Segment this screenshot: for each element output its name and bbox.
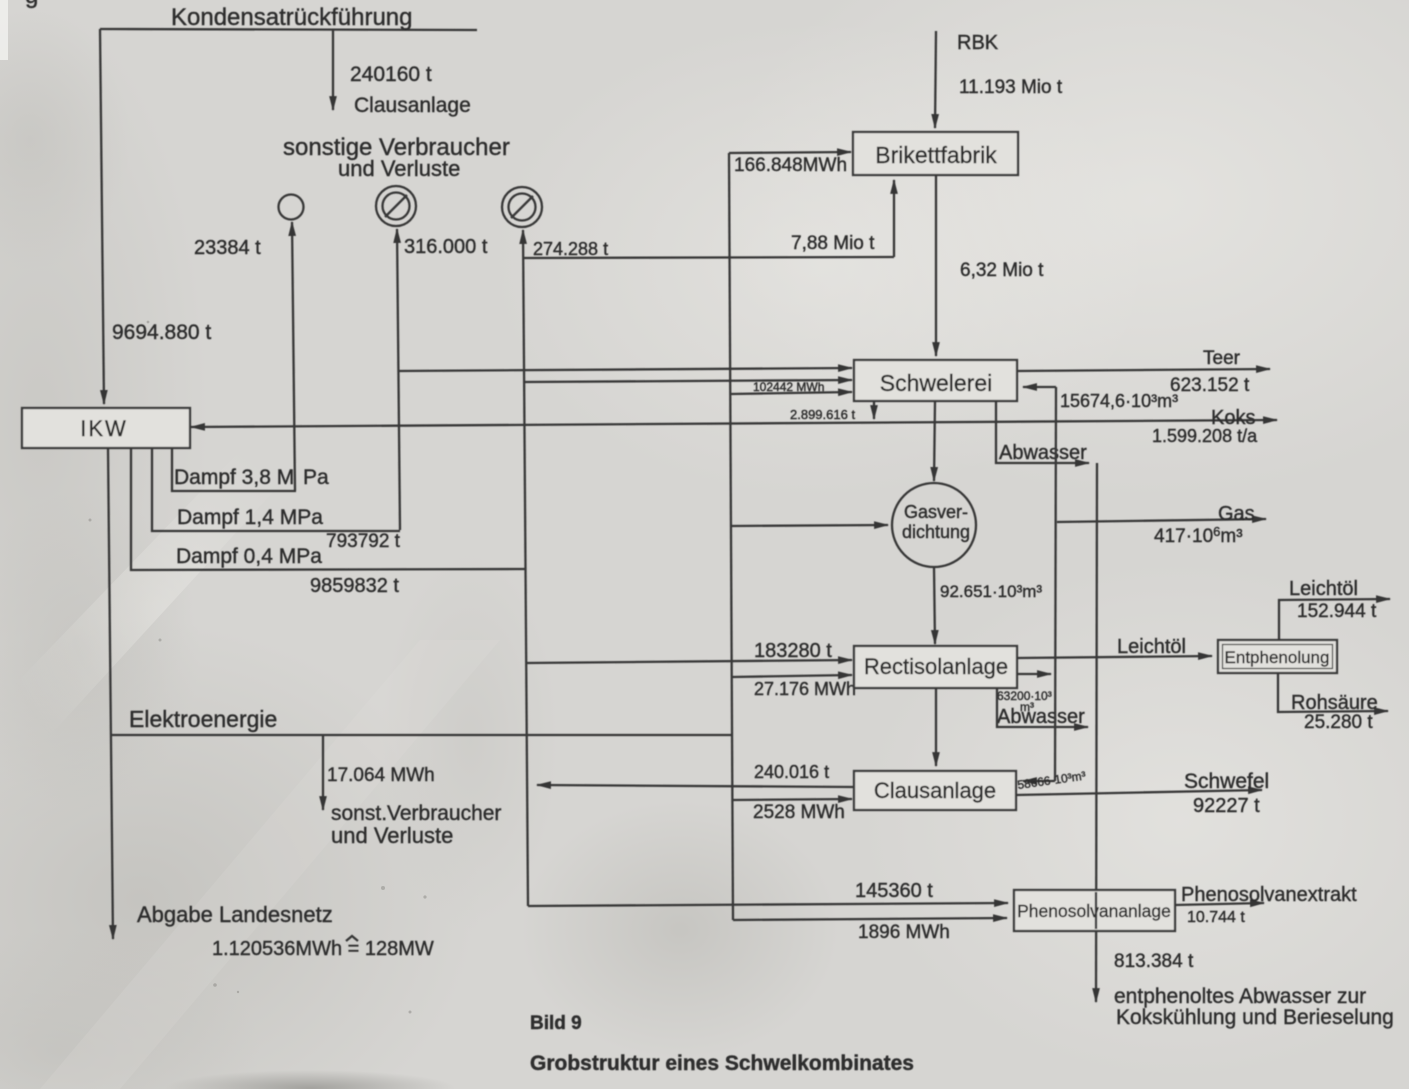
wire steam feed 2 into Schwelerei: [525, 380, 852, 382]
label sonst Verbraucher und Verluste: [331, 802, 501, 848]
svg-text:240.016 t: 240.016 t: [754, 762, 829, 782]
svg-text:27.176 MWh: 27.176 MWh: [754, 679, 856, 699]
svg-text:Dampf 3,8 M: Dampf 3,8 M: [174, 466, 294, 489]
wire Elektro distribution vertical: [729, 153, 733, 920]
svg-text:92.651·10³m³: 92.651·10³m³: [940, 582, 1042, 601]
wire Entphenolung Leichtoel out: [1279, 599, 1390, 640]
label 15674,6 10^3 m^3: [1060, 391, 1178, 411]
svg-text:623.152 t: 623.152 t: [1170, 375, 1250, 396]
wire branch to Clausanlage (condensate): [332, 29, 334, 110]
wire 240016 t return line: [537, 785, 854, 787]
wire Dampf 1,4 from IKW: [152, 448, 400, 531]
svg-text:Brikettfabrik: Brikettfabrik: [875, 142, 997, 168]
svg-text:Bild 9: Bild 9: [530, 1013, 582, 1034]
svg-text:Abwasser: Abwasser: [999, 442, 1087, 464]
wire Schwelerei Abwasser to collector: [996, 401, 1089, 463]
label Kondensatrueckfuehrung: [171, 4, 413, 31]
wire 17064 branch down: [322, 736, 324, 810]
label 145360 t: [855, 880, 933, 902]
svg-text:23384 t: 23384 t: [194, 237, 261, 259]
wire 1896 MWh to Phenosolvananlage: [733, 918, 1007, 920]
label Gas: [1218, 503, 1255, 525]
wire 274288 horizontal to Brikettfabrik riser: [524, 257, 894, 258]
wire Schwelerei coke drop: [873, 401, 875, 419]
svg-text:Schwefel: Schwefel: [1184, 770, 1269, 793]
box IKW: [22, 408, 190, 448]
wire steam feed 1 into Schwelerei: [398, 368, 852, 371]
svg-text:Clausanlage: Clausanlage: [354, 94, 471, 117]
svg-text:IKW: IKW: [80, 416, 128, 441]
svg-text:1.599.208 t/a: 1.599.208 t/a: [1152, 426, 1258, 446]
svg-text:316.000 t: 316.000 t: [404, 236, 488, 258]
svg-text:Grobstruktur eines Schwelkombi: Grobstruktur eines Schwelkombinates: [530, 1052, 914, 1075]
svg-text:RBK: RBK: [957, 32, 999, 54]
label Leichtoel out: [1289, 578, 1358, 600]
svg-text:102442 MWh: 102442 MWh: [753, 380, 824, 394]
box Schwelerei: [854, 360, 1017, 401]
svg-text:15674,6·10³m³: 15674,6·10³m³: [1060, 391, 1178, 411]
svg-text:166.848MWh: 166.848MWh: [734, 155, 847, 176]
label Rohsaeure: [1291, 692, 1378, 714]
label 92227 t: [1193, 795, 1260, 817]
label Abwasser top: [999, 442, 1087, 464]
svg-text:Abwasser: Abwasser: [997, 706, 1085, 728]
svg-text:9859832 t: 9859832 t: [310, 575, 399, 597]
wire Rectisol gas out to sour gas vertical: [1017, 673, 1051, 675]
wire IKW down to Landesnetz: [108, 448, 113, 939]
wire 145360 t to Phenosolvananlage: [528, 903, 1008, 906]
svg-text:17.064 MWh: 17.064 MWh: [327, 765, 435, 786]
label Teer: [1203, 348, 1241, 369]
wire sour gas vertical: [1055, 387, 1056, 781]
svg-text:2528 MWh: 2528 MWh: [753, 802, 845, 823]
wire electricity to Gasverdichtung: [731, 525, 888, 526]
svg-text:Schwelerei: Schwelerei: [880, 370, 993, 396]
label RBK: [957, 32, 999, 54]
wire Rectisol Abwasser to collector: [997, 688, 1088, 727]
svg-text:1896 MWh: 1896 MWh: [858, 922, 950, 943]
consumer circle crossed (274288 t): [502, 187, 542, 227]
svg-text:1.120536MWh = 128MW: 1.120536MWh = 128MW: [212, 938, 434, 960]
svg-text:7,88 Mio t: 7,88 Mio t: [791, 233, 875, 254]
wire riser 7,88 Mio t into Brikettfabrik: [893, 180, 895, 257]
label Bild 9: [530, 1013, 582, 1034]
label 240160 t: [350, 63, 432, 86]
label 2528 MWh: [753, 802, 845, 823]
svg-text:Phenosolvanextrakt: Phenosolvanextrakt: [1181, 884, 1357, 906]
label 813384 t: [1114, 951, 1194, 972]
wire 2528 MWh into Clausanlage: [733, 799, 852, 800]
label 1120536 MWh = 128 MW: [212, 936, 434, 960]
svg-text:813.384 t: 813.384 t: [1114, 951, 1194, 972]
label 9694880 t: [112, 321, 211, 344]
svg-text:Gasver-: Gasver-: [904, 502, 968, 522]
wire Phenosolvanextrakt out: [1175, 903, 1264, 905]
svg-text:entphenoltes Abwasser zur: entphenoltes Abwasser zur: [1114, 985, 1366, 1008]
svg-text:417·106m³: 417·106m³: [1154, 524, 1243, 547]
svg-text:Clausanlage: Clausanlage: [874, 778, 996, 803]
label Kokskuehlung und Berieselung: [1116, 1006, 1394, 1029]
scan specks: [89, 321, 427, 1014]
label Leichtoel mid: [1117, 636, 1186, 658]
wire gas return into Schwelerei: [1023, 386, 1056, 388]
wire sour gas into Clausanlage right: [1023, 780, 1055, 782]
svg-text:92227 t: 92227 t: [1193, 795, 1260, 817]
wire Schwelerei to Gasverdichtung: [934, 401, 935, 481]
wire riser to crossed circle 316000: [397, 229, 400, 530]
wire Gasverdichtung to Rectisolanlage: [934, 567, 935, 644]
svg-text:Phenosolvananlage: Phenosolvananlage: [1017, 901, 1171, 921]
wire Abwasser collector vertical to Phenosolvananlage: [1096, 463, 1097, 1002]
label 2899616 t: [790, 407, 855, 422]
wire Entphenolung Rohsaeure out: [1278, 673, 1388, 712]
label Phenosolvanextrakt: [1181, 884, 1357, 906]
label 183280 t: [754, 640, 832, 662]
wire long coke line IKW to Koks: [191, 420, 1277, 427]
svg-text:240160 t: 240160 t: [350, 63, 432, 86]
wire Rectisolanlage to Clausanlage: [935, 688, 937, 766]
label 623152 t: [1170, 375, 1250, 396]
label Abgabe Landesnetz: [137, 902, 333, 927]
consumer circle crossed (316000 t): [376, 186, 416, 226]
label 92651 10^3 m^3: [940, 582, 1042, 601]
svg-text:25.280 t: 25.280 t: [1304, 712, 1373, 733]
label Schwefel: [1184, 770, 1269, 793]
box Phenosolvananlage: [1014, 890, 1175, 931]
label 9859832 t: [310, 575, 399, 597]
svg-text:und Verluste: und Verluste: [331, 823, 453, 848]
wire Leichtoel to Entphenolung: [1017, 656, 1212, 658]
svg-text:145360 t: 145360 t: [855, 880, 933, 902]
label 11.193 Mio t: [959, 77, 1063, 98]
wire left vertical from header to IKW: [100, 29, 104, 404]
wire Brikettfabrik to Schwelerei: [935, 175, 937, 356]
svg-text:152.944 t: 152.944 t: [1297, 601, 1377, 622]
svg-text:2.899.616 t: 2.899.616 t: [790, 407, 855, 422]
svg-text:Rohsäure: Rohsäure: [1291, 692, 1378, 714]
wire Teer output: [1017, 369, 1270, 371]
svg-text:dichtung: dichtung: [902, 522, 970, 542]
svg-text:Dampf 1,4 MPa: Dampf 1,4 MPa: [177, 506, 323, 529]
svg-text:Gas: Gas: [1218, 503, 1255, 525]
label 316000 t: [404, 236, 488, 258]
label 166848 MWh: [734, 155, 847, 176]
svg-text:und Verluste: und Verluste: [338, 156, 460, 181]
label 1599208 t/a: [1152, 426, 1258, 446]
svg-text:183280 t: 183280 t: [754, 640, 832, 662]
box Brikettfabrik: [853, 132, 1018, 175]
svg-text:Teer: Teer: [1203, 348, 1241, 369]
svg-text:Kondensatrückführung: Kondensatrückführung: [171, 4, 413, 31]
wire 183280 t into Rectisolanlage: [527, 660, 852, 663]
label 6,32 Mio t: [960, 260, 1044, 281]
label 152944 t: [1297, 601, 1377, 622]
label Dampf 1,4 MPa: [177, 506, 323, 529]
wire Dampf 0,4 from IKW: [131, 448, 526, 570]
label sonstige Verbraucher und Verluste: [283, 134, 510, 181]
svg-text:Pa: Pa: [303, 466, 329, 489]
label 25280 t: [1304, 712, 1373, 733]
label 17064 MWh: [327, 765, 435, 786]
wire Schwefel output: [1016, 790, 1262, 795]
svg-text:Entphenolung: Entphenolung: [1225, 648, 1330, 667]
label 417 10^6 m^3: [1154, 524, 1243, 547]
box Clausanlage: [854, 771, 1016, 810]
svg-text:Elektroenergie: Elektroenergie: [129, 706, 277, 732]
svg-text:g: g: [25, 0, 38, 9]
label 240016 t: [754, 762, 829, 782]
svg-text:9694.880 t: 9694.880 t: [112, 321, 211, 344]
label Dampf 3,8 M Pa: [174, 466, 329, 489]
svg-text:Leichtöl: Leichtöl: [1117, 636, 1186, 658]
svg-text:sonst.Verbraucher: sonst.Verbraucher: [331, 802, 501, 825]
svg-text:Rectisolanlage: Rectisolanlage: [864, 654, 1008, 679]
label 58666 10^3 m^3: [1016, 769, 1086, 792]
label entphenoltes Abwasser zur: [1114, 985, 1366, 1008]
wire central steam vertical: [523, 230, 528, 906]
wire Kondensatrueckfuehrung header line: [100, 29, 477, 30]
svg-text:274.288 t: 274.288 t: [533, 239, 608, 259]
svg-text:Leichtöl: Leichtöl: [1289, 578, 1358, 600]
label 63200 10^3 m^3 Abwasser: [997, 689, 1085, 728]
label 23384 t: [194, 237, 261, 259]
box Entphenolung: [1218, 640, 1337, 673]
wire RBK feed: [935, 31, 936, 128]
svg-text:Dampf 0,4 MPa: Dampf 0,4 MPa: [176, 545, 322, 568]
svg-text:10.744 t: 10.744 t: [1187, 909, 1245, 926]
label 274288 t: [533, 239, 608, 259]
label 7,88 Mio t: [791, 233, 875, 254]
wire riser to plain circle: [292, 222, 295, 491]
box Rectisolanlage: [854, 646, 1017, 688]
svg-text:793792 t: 793792 t: [326, 531, 401, 552]
label Koks: [1211, 407, 1255, 429]
wire Dampf 3,8 from IKW: [172, 448, 296, 491]
label Elektroenergie: [129, 706, 277, 732]
node Gasverdichtung compressor: [892, 483, 976, 567]
svg-text:Kokskühlung und Berieselung: Kokskühlung und Berieselung: [1116, 1006, 1394, 1029]
wire electricity to Brikettfabrik: [729, 152, 851, 153]
label Dampf 0,4 MPa: [176, 545, 322, 568]
wire Gas output: [1057, 519, 1266, 522]
wire 27176 MWh into Rectisolanlage: [732, 675, 852, 677]
svg-text:Abgabe Landesnetz: Abgabe Landesnetz: [137, 902, 333, 927]
label 10744 t: [1187, 909, 1245, 926]
label 102442 MWh: [753, 380, 824, 394]
wire Elektroenergie horizontal: [110, 734, 731, 736]
label 793792 t: [326, 531, 401, 552]
svg-text:11.193 Mio t: 11.193 Mio t: [959, 77, 1063, 98]
label Clausanlage destination: [354, 94, 471, 117]
label 1896 MWh: [858, 922, 950, 943]
stray letter g top-left: [25, 0, 38, 9]
label Grobstruktur eines Schwelkombinates: [530, 1052, 914, 1075]
svg-text:6,32 Mio t: 6,32 Mio t: [960, 260, 1044, 281]
wire electricity feed into Schwelerei: [731, 392, 852, 394]
label 27176 MWh: [754, 679, 856, 699]
consumer circle plain (23384 t): [279, 195, 304, 220]
wire Abwasser through Phenosolvananlage: [1095, 892, 1097, 929]
